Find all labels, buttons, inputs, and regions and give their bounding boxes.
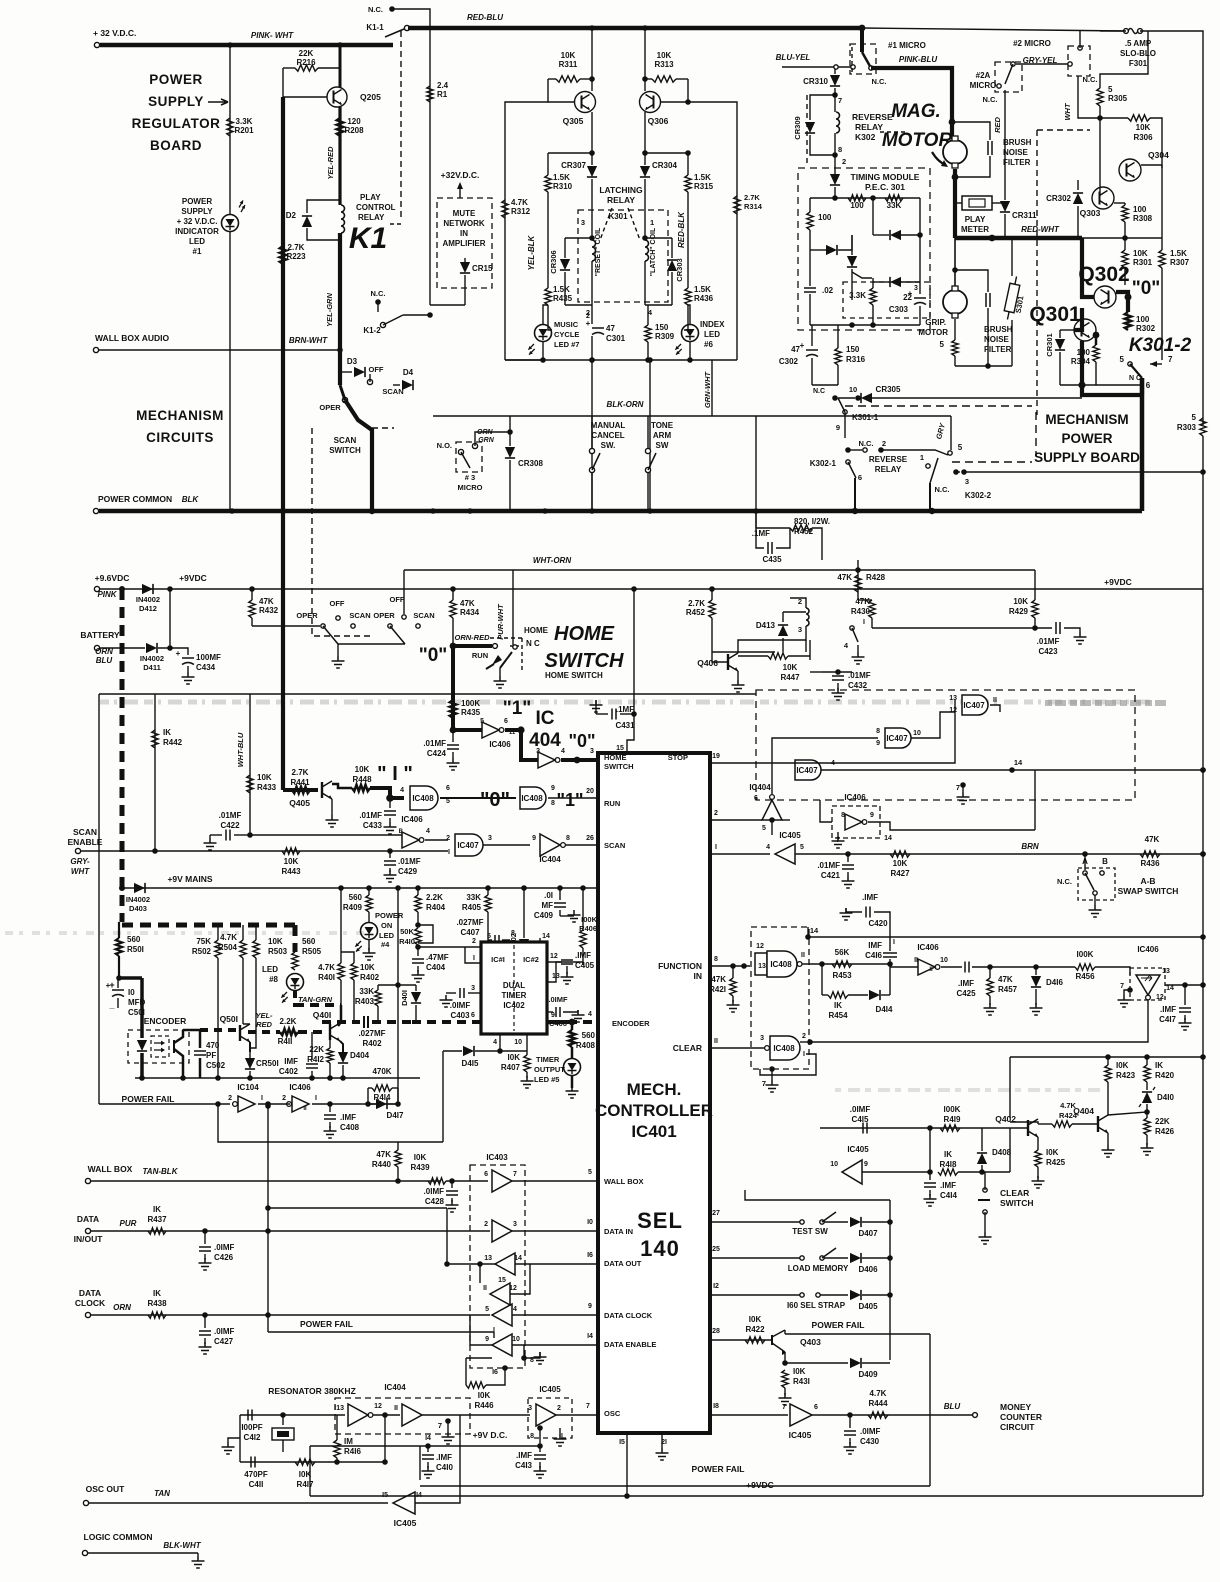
contact K1-2 N.C. (375, 299, 381, 305)
svg-text:6: 6 (858, 473, 862, 482)
svg-text:OFF: OFF (369, 365, 384, 374)
svg-text:8: 8 (876, 728, 880, 735)
svg-text:IC405: IC405 (394, 1518, 417, 1528)
resistor R440 47K (395, 1150, 401, 1167)
wire osc out right (415, 1415, 460, 1503)
svg-text:+: + (586, 319, 591, 328)
dashed box reverse relay region (806, 95, 808, 165)
svg-text:5: 5 (958, 443, 963, 452)
svg-text:C4I2: C4I2 (244, 1433, 261, 1442)
svg-text:K302-1: K302-1 (810, 459, 837, 468)
svg-text:10K: 10K (1013, 597, 1028, 606)
diode D406 (850, 1253, 861, 1263)
svg-text:# 3: # 3 (465, 473, 475, 482)
svg-text:IC#I: IC#I (491, 955, 505, 964)
wire right rail latching (688, 102, 737, 360)
buffer ic403 clock (492, 1304, 512, 1326)
svg-text:COUNTER: COUNTER (1000, 1412, 1042, 1422)
svg-text:IK: IK (153, 1205, 161, 1214)
inverter IC404 home2 (538, 752, 555, 768)
svg-text:47: 47 (791, 345, 800, 354)
wire k302-2 right (964, 471, 1203, 473)
svg-text:.IMF: .IMF (1160, 1005, 1176, 1014)
svg-text:.0IMF: .0IMF (424, 1187, 445, 1196)
svg-text:R201: R201 (234, 126, 254, 135)
wire grip bottom (955, 365, 1012, 367)
svg-text:9: 9 (864, 1161, 868, 1168)
svg-text:CR308: CR308 (518, 459, 543, 468)
svg-text:7: 7 (1168, 355, 1173, 364)
dashed pointer latch relay (600, 208, 612, 240)
svg-text:Q404: Q404 (1073, 1106, 1094, 1116)
svg-text:CR306: CR306 (549, 250, 558, 273)
diode D412 (142, 584, 153, 594)
gate IC407 b (885, 728, 911, 748)
svg-text:K302-2: K302-2 (965, 491, 992, 500)
svg-text:IC402: IC402 (503, 1001, 525, 1010)
diode CR304 (640, 166, 650, 177)
resistor R404 2.2K (415, 895, 421, 912)
resistor R505 560 (292, 952, 298, 970)
svg-text:Q50I: Q50I (220, 1014, 238, 1024)
svg-text:R434: R434 (460, 608, 480, 617)
svg-text:D407: D407 (858, 1229, 878, 1238)
svg-text:75K: 75K (196, 937, 211, 946)
svg-text:RESONATOR 380KHZ: RESONATOR 380KHZ (268, 1386, 356, 1396)
svg-text:R312: R312 (511, 207, 531, 216)
capacitor C407b .027MF inline encoder (322, 1020, 360, 1024)
wire resonator top row (240, 1414, 345, 1416)
inverter IC404 scan (540, 834, 560, 856)
svg-text:PLAY: PLAY (360, 193, 381, 202)
svg-text:CLOCK: CLOCK (75, 1298, 106, 1308)
svg-text:IK: IK (944, 1150, 952, 1159)
LED #5 timer output (571, 1047, 574, 1059)
svg-text:CR307: CR307 (561, 161, 586, 170)
wire res2 out to ic405 (422, 1414, 530, 1416)
heavy dashed encoder supply (122, 923, 295, 928)
node mag motor top (949, 119, 956, 126)
svg-text:C404: C404 (426, 963, 446, 972)
svg-text:R310: R310 (553, 182, 573, 191)
svg-text:33K: 33K (359, 987, 374, 996)
fuse F301 (1124, 29, 1129, 34)
svg-text:.01MF: .01MF (398, 857, 421, 866)
wire grn-wht down (755, 416, 757, 511)
svg-text:.0IMF: .0IMF (850, 1105, 871, 1114)
wire blk-orn line (433, 415, 951, 417)
svg-text:I4: I4 (425, 1435, 431, 1442)
svg-text:R452: R452 (686, 608, 706, 617)
svg-text:TIMER: TIMER (502, 991, 527, 1000)
svg-text:9: 9 (551, 785, 555, 792)
svg-text:LOGIC COMMON: LOGIC COMMON (84, 1532, 153, 1542)
capacitor C409 .01MF (559, 888, 561, 900)
transistor Q303 (1092, 187, 1114, 209)
svg-text:C430: C430 (860, 1437, 880, 1446)
diode D409 (785, 1362, 848, 1364)
resistor R406 100K (580, 930, 586, 948)
svg-text:10K: 10K (355, 765, 370, 774)
svg-text:10K: 10K (561, 51, 576, 60)
svg-text:R216: R216 (296, 58, 316, 67)
svg-text:7: 7 (438, 1421, 442, 1430)
svg-text:I0K: I0K (749, 1315, 762, 1324)
svg-text:19: 19 (712, 753, 720, 760)
svg-text:REGULATOR: REGULATOR (132, 116, 221, 131)
svg-text:1.5K: 1.5K (1170, 249, 1187, 258)
wire ic406ab in (820, 800, 832, 822)
svg-text:7: 7 (586, 1403, 590, 1410)
svg-text:C434: C434 (196, 663, 216, 672)
svg-text:I00K: I00K (944, 1105, 961, 1114)
resistor R402 10K (351, 963, 357, 980)
transistor Q404 (1098, 1115, 1108, 1133)
wire pin25 load memory (710, 1257, 800, 1259)
resistor R452 2.7K v (709, 600, 715, 618)
wire ic408a out (802, 963, 822, 965)
svg-text:R448: R448 (352, 775, 372, 784)
svg-text:R4I6: R4I6 (344, 1447, 361, 1456)
svg-text:+9VDC: +9VDC (179, 573, 207, 583)
svg-text:RED: RED (256, 1020, 272, 1029)
svg-text:5: 5 (1192, 413, 1197, 422)
svg-text:2.4: 2.4 (437, 81, 449, 90)
LED #7 music cycle (535, 325, 552, 342)
svg-text:2: 2 (228, 1095, 232, 1102)
svg-text:R426: R426 (1155, 1127, 1175, 1136)
svg-text:D405: D405 (858, 1302, 878, 1311)
svg-text:2: 2 (282, 1095, 286, 1102)
svg-text:.0IMF: .0IMF (450, 1001, 471, 1010)
svg-text:IM: IM (344, 1437, 353, 1446)
svg-text:I0K: I0K (414, 1153, 427, 1162)
svg-text:SWITCH: SWITCH (1000, 1198, 1034, 1208)
resistor R444 4.7K inline (868, 1412, 888, 1418)
wire 47K R428 from power common region (857, 560, 859, 570)
svg-text:II: II (483, 1285, 487, 1292)
svg-text:MICRO: MICRO (458, 483, 483, 492)
diode CR311 (1000, 201, 1010, 212)
svg-text:R4II: R4II (278, 1037, 293, 1046)
svg-text:R409: R409 (343, 903, 363, 912)
svg-text:FILTER: FILTER (1003, 158, 1031, 167)
svg-text:SW: SW (656, 441, 669, 450)
svg-text:2: 2 (802, 1033, 806, 1040)
buffer ic404 res2 (402, 1404, 422, 1426)
svg-text:ARM: ARM (653, 431, 672, 440)
svg-text:D403: D403 (129, 904, 147, 913)
svg-text:2: 2 (472, 938, 476, 945)
capacitor C402 1MF (311, 1032, 313, 1060)
wire r448 to ic408 (370, 788, 390, 798)
svg-text:3: 3 (513, 1221, 517, 1228)
resistor 3.3K timing (870, 288, 876, 305)
resistor R435 100K thick (450, 700, 456, 718)
svg-text:100: 100 (1077, 348, 1091, 357)
capacitor C413 .1MF (539, 1446, 541, 1452)
svg-text:NOISE: NOISE (1003, 148, 1029, 157)
transistor Q406 (728, 653, 738, 671)
svg-text:D412: D412 (139, 604, 157, 613)
svg-text:2.2K: 2.2K (280, 1017, 297, 1026)
svg-text:R305: R305 (1108, 94, 1128, 103)
wire POWER FAIL vertical x268 (267, 1106, 269, 1332)
svg-text:D409: D409 (858, 1370, 878, 1379)
wire pin18 osc out buffer (710, 1414, 788, 1416)
svg-text:BRN-WHT: BRN-WHT (289, 336, 328, 345)
wire q501 collector to r504 (243, 1023, 250, 1025)
wire q403 emitter (784, 1352, 786, 1363)
svg-text:SUPPLY: SUPPLY (181, 207, 213, 216)
wire q404 collector (1107, 1105, 1109, 1115)
svg-text:13: 13 (1162, 968, 1170, 975)
dashed box latching relay (578, 210, 668, 302)
svg-text:47K: 47K (259, 597, 274, 606)
svg-text:PINK- WHT: PINK- WHT (251, 31, 294, 40)
svg-text:100K: 100K (461, 699, 480, 708)
capacitor C302 47 (806, 349, 818, 351)
wire gry-blk thick corner to Q405 (283, 788, 318, 792)
resistor R302 100 thick (1125, 312, 1131, 330)
svg-text:9: 9 (876, 740, 880, 747)
resistor R216 22K (295, 65, 318, 71)
svg-text:3: 3 (590, 748, 594, 755)
svg-text:R432: R432 (259, 606, 279, 615)
svg-text:I0: I0 (587, 1219, 593, 1226)
capacitor C434 100MF (167, 645, 173, 651)
node N.C. K1-1 (389, 6, 395, 12)
svg-text:IC407: IC407 (886, 734, 908, 743)
svg-text:6: 6 (1146, 381, 1151, 390)
svg-text:C435: C435 (762, 555, 782, 564)
svg-text:R447: R447 (780, 673, 800, 682)
svg-text:R433: R433 (257, 783, 277, 792)
svg-text:A-B: A-B (1140, 876, 1155, 886)
svg-text:47K: 47K (837, 573, 852, 582)
svg-text:4: 4 (400, 787, 404, 794)
wire fuse to right border (1140, 31, 1203, 425)
svg-text:8: 8 (714, 956, 718, 963)
resistor R411 2.2K (280, 1029, 298, 1035)
svg-text:POWER FAIL: POWER FAIL (122, 1094, 175, 1104)
svg-text:IC#2: IC#2 (523, 955, 539, 964)
svg-text:#2A: #2A (976, 71, 991, 80)
svg-text:+9VDC: +9VDC (746, 1480, 774, 1490)
svg-text:I00K: I00K (1077, 950, 1094, 959)
wire reverse relay to power common (854, 478, 856, 511)
wire r453 row (822, 963, 890, 965)
svg-text:II: II (714, 1038, 718, 1045)
svg-text:IK: IK (1155, 1061, 1163, 1070)
svg-text:BRUSH: BRUSH (1003, 138, 1032, 147)
svg-text:.1MF: .1MF (752, 529, 770, 538)
crystal resonator (280, 1412, 286, 1418)
resistor R304 100 (1093, 345, 1099, 362)
switch K302-2 (926, 464, 930, 468)
svg-text:+: + (106, 981, 111, 990)
svg-text:CR302: CR302 (1046, 194, 1071, 203)
svg-text:3: 3 (760, 1035, 764, 1042)
switch #1 micro (850, 44, 876, 74)
svg-text:RED-BLU: RED-BLU (467, 13, 503, 22)
resistor R311 10K (556, 76, 580, 82)
svg-text:RELAY: RELAY (875, 465, 902, 474)
svg-text:C407: C407 (460, 928, 480, 937)
svg-text:IMF: IMF (284, 1057, 298, 1066)
svg-text:10K: 10K (360, 963, 375, 972)
svg-text:4.7K: 4.7K (318, 963, 335, 972)
wire ic407c out row 14 (821, 769, 1203, 771)
wire timing inner (919, 198, 921, 282)
resistor R427 10K inline (890, 851, 910, 857)
node right border junctions (1200, 767, 1206, 773)
svg-text:R437: R437 (147, 1215, 167, 1224)
terminal power common (93, 508, 98, 513)
dashed box IC403 (470, 1165, 525, 1368)
svg-text:5: 5 (1120, 355, 1125, 364)
resistor R309 150 (645, 325, 651, 342)
svg-text:.0IMF: .0IMF (214, 1243, 235, 1252)
svg-text:R438: R438 (147, 1299, 167, 1308)
svg-text:WALL BOX: WALL BOX (604, 1177, 643, 1186)
svg-text:22: 22 (903, 293, 912, 302)
svg-text:LOAD MEMORY: LOAD MEMORY (788, 1264, 849, 1273)
svg-text:B: B (399, 829, 404, 835)
svg-text:10K: 10K (893, 859, 908, 868)
svg-text:33K: 33K (887, 201, 902, 210)
svg-text:R408: R408 (576, 1041, 596, 1050)
svg-text:56K: 56K (835, 948, 850, 957)
svg-text:R420: R420 (1155, 1071, 1175, 1080)
svg-text:TONE: TONE (651, 421, 674, 430)
svg-text:R4I8: R4I8 (940, 1160, 957, 1169)
svg-text:CR50I: CR50I (256, 1059, 279, 1068)
motor mag (943, 140, 967, 164)
svg-text:IC406: IC406 (289, 1083, 311, 1092)
svg-text:10: 10 (940, 957, 948, 964)
coil reset (592, 240, 596, 261)
wire play row (710, 819, 762, 821)
svg-text:4.7K: 4.7K (220, 933, 237, 942)
diode CR309 (810, 95, 835, 120)
svg-text:C425: C425 (956, 989, 976, 998)
svg-text:K302: K302 (855, 132, 876, 142)
svg-text:+32V.D.C.: +32V.D.C. (441, 170, 480, 180)
wire d415 riser (442, 1051, 444, 1142)
svg-text:YEL-GRN: YEL-GRN (325, 293, 334, 327)
wire r446 loop to buffer (466, 1357, 492, 1359)
wire d413 top (783, 611, 806, 613)
svg-text:D40I: D40I (400, 990, 409, 1006)
ground q405 (331, 799, 333, 815)
svg-text:R42I: R42I (709, 985, 726, 994)
svg-text:R502: R502 (192, 947, 212, 956)
svg-text:14: 14 (1014, 758, 1023, 767)
svg-text:TAN-GRN: TAN-GRN (298, 995, 333, 1004)
svg-text:C409: C409 (534, 911, 554, 920)
svg-text:R311: R311 (559, 60, 578, 69)
svg-text:10K: 10K (1133, 249, 1148, 258)
node wall box audio junction (337, 347, 343, 353)
svg-text:WALL BOX AUDIO: WALL BOX AUDIO (95, 333, 170, 343)
svg-text:1: 1 (650, 218, 654, 227)
svg-text:28: 28 (712, 1328, 720, 1335)
svg-text:14: 14 (884, 835, 892, 842)
svg-text:.IMF: .IMF (516, 1451, 532, 1460)
svg-text:OFF: OFF (330, 599, 345, 608)
wire power fail loop down (218, 1104, 443, 1142)
svg-text:IC405: IC405 (789, 1430, 812, 1440)
wire data loop top (265, 1205, 271, 1211)
svg-text:DATA CLOCK: DATA CLOCK (604, 1311, 653, 1320)
scan noise streak upper (100, 700, 1155, 705)
svg-text:SWAP SWITCH: SWAP SWITCH (1118, 886, 1179, 896)
wire right border down (1202, 436, 1204, 592)
resistor R434 47K (450, 600, 456, 618)
svg-text:OPER: OPER (319, 403, 341, 412)
svg-text:I6: I6 (492, 1369, 498, 1376)
svg-text:I: I (893, 939, 895, 946)
svg-text:IK: IK (834, 1001, 842, 1010)
wire k302 down 2 (834, 155, 836, 175)
wire mag motor to bus RED-WHT (953, 169, 957, 238)
svg-text:CANCEL: CANCEL (591, 431, 624, 440)
resistor R422 10K inline (745, 1337, 765, 1343)
svg-text:DATA IN: DATA IN (604, 1227, 633, 1236)
wire +32VDC bus (100, 43, 393, 48)
wire pin28 q403 (710, 1339, 772, 1341)
capacitor C425 .1MF (941, 966, 962, 968)
svg-text:120: 120 (347, 117, 361, 126)
svg-text:SLO-BLO: SLO-BLO (1120, 49, 1156, 58)
svg-text:CR304: CR304 (652, 161, 677, 170)
svg-text:10K: 10K (268, 937, 283, 946)
resistor R401 4.7K (338, 963, 344, 980)
svg-text:IN4002: IN4002 (126, 895, 150, 904)
arrow mag motor (932, 152, 946, 165)
wire res mid (373, 1414, 400, 1416)
svg-text:LED #5: LED #5 (534, 1075, 559, 1084)
wire scan to pin26 (566, 844, 598, 846)
svg-text:R456: R456 (1075, 972, 1095, 981)
svg-text:R457: R457 (998, 985, 1018, 994)
svg-text:N.C.: N.C. (1057, 877, 1072, 886)
svg-text:LED #7: LED #7 (554, 340, 579, 349)
svg-text:100: 100 (1136, 315, 1150, 324)
svg-text:7: 7 (838, 96, 842, 105)
wire q404 emitter gnd (1107, 1133, 1109, 1145)
diode D402 (519, 939, 529, 950)
svg-text:47K: 47K (998, 975, 1013, 984)
svg-text:R43I: R43I (793, 1377, 810, 1386)
svg-text:#6: #6 (704, 340, 713, 349)
svg-text:6: 6 (471, 1012, 475, 1019)
buffer ic405 osc (536, 1404, 556, 1426)
svg-text:C423: C423 (1038, 647, 1058, 656)
capacitor C429 .01MF (387, 848, 393, 854)
svg-text:BOARD: BOARD (150, 138, 202, 153)
capacitor C435 .1MF (755, 511, 757, 528)
capacitor C502 470PF (199, 1030, 202, 1048)
svg-text:D3: D3 (347, 357, 358, 366)
svg-text:R422: R422 (745, 1325, 765, 1334)
svg-text:Q302: Q302 (1078, 263, 1129, 286)
svg-text:R301: R301 (1133, 258, 1153, 267)
svg-text:IC408: IC408 (770, 960, 792, 969)
svg-text:7: 7 (513, 1171, 517, 1178)
wire wall box audio (99, 349, 340, 351)
